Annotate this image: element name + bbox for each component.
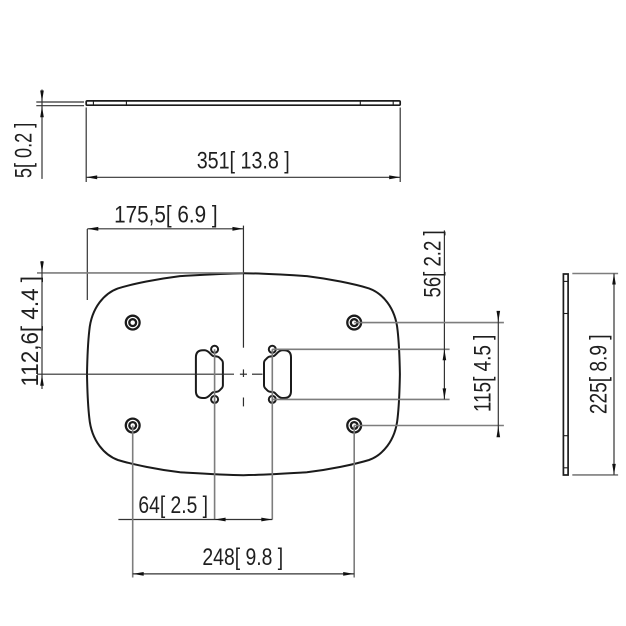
dim 225 extension line top (572, 273, 618, 275)
right slot cutout (264, 350, 291, 398)
dim 225 arrow bottom (612, 464, 616, 475)
gray extension line from bottom-right hole (horizontal) (354, 425, 504, 427)
dim 351 arrow left (86, 175, 97, 179)
side view divider line 3 (563, 435, 568, 437)
dim 175,5 arrow right (232, 227, 243, 231)
dim 351 arrow right (389, 175, 400, 179)
dim 175,5 extension line left (86, 229, 88, 300)
horizontal centerline (dashed) (37, 373, 263, 375)
dim 248 arrow right (343, 572, 354, 576)
svg-text:115[ 4.5 ]: 115[ 4.5 ] (469, 335, 496, 413)
svg-text:5[ 0.2 ]: 5[ 0.2 ] (11, 123, 38, 178)
svg-text:64[ 2.5 ]: 64[ 2.5 ] (138, 492, 208, 519)
dim 112,6 arrow bottom (40, 375, 44, 386)
svg-text:225[ 8.9 ]: 225[ 8.9 ] (585, 334, 612, 414)
dim 112,6 dimension line (41, 261, 43, 389)
dim 248 arrow left (133, 572, 144, 576)
dim 175,5 arrow left (87, 227, 98, 231)
dim 115 dimension line (497, 311, 499, 437)
hole bottom-left (126, 419, 140, 433)
dim 115 arrow bottom (497, 426, 501, 437)
dim 115 arrow top (497, 311, 501, 322)
gray extension line from right slot circles (vertical) (271, 349, 273, 519)
svg-text:248[ 9.8 ]: 248[ 9.8 ] (202, 544, 283, 571)
dim 5[0.2] extension line lower (36, 105, 84, 107)
main view plate outline (87, 273, 400, 475)
dim 5[0.2] arrow top (40, 91, 44, 102)
side view divider line 2 (563, 313, 568, 315)
dim 64 arrow left (215, 518, 226, 522)
dim 248 dimension line (133, 573, 355, 575)
dim 225 dimension line (613, 274, 615, 475)
gray extension line from right slot top circle (272, 348, 449, 350)
dim 64 arrow right (261, 518, 272, 522)
side view divider line 4 (563, 467, 568, 469)
dim 225 arrow top (612, 274, 616, 285)
svg-text:351[ 13.8 ]: 351[ 13.8 ] (197, 147, 290, 174)
plate top edge extension line (gray) (37, 272, 243, 274)
svg-text:56[ 2.2 ]: 56[ 2.2 ] (420, 230, 447, 297)
top view divider line 2 (125, 101, 127, 105)
dim 5[0.2] arrow bottom (40, 106, 44, 117)
dim 351 dimension line (86, 176, 400, 178)
svg-text:175,5[ 6.9 ]: 175,5[ 6.9 ] (114, 202, 218, 229)
top view divider line 1 (92, 101, 94, 105)
hole bottom-right (347, 419, 361, 433)
left slot top circle (211, 346, 218, 353)
svg-text:112,6[ 4.4 ]: 112,6[ 4.4 ] (17, 276, 44, 387)
gray extension line from top-right hole (354, 322, 504, 324)
dim 5[0.2] dimension line (41, 90, 43, 179)
dim 112,6 arrow top (40, 261, 44, 272)
gray extension line from right slot bottom circle (272, 398, 449, 400)
gray extension line from left slot circles (vertical) (214, 349, 216, 519)
hole top-right (347, 316, 361, 330)
side view plate outline (563, 274, 568, 475)
left slot bottom circle (211, 396, 218, 403)
vertical centerline (dashed) (242, 226, 244, 407)
top view divider line 3 (359, 101, 361, 105)
dim 351 extension line left (85, 108, 87, 183)
dim 351 extension line right (399, 108, 401, 183)
top view divider line 4 (392, 101, 394, 105)
right slot bottom circle (269, 396, 276, 403)
dim 64 dimension line (118, 519, 272, 521)
dim 175,5 dimension line (87, 228, 243, 230)
hole top-left (126, 316, 140, 330)
dim 56 arrow bottom (443, 388, 447, 399)
side view divider line 1 (563, 280, 568, 282)
dim 225 extension line bottom (572, 474, 618, 476)
gray extension line from bottom-left hole (vertical) (132, 426, 134, 578)
dim 56 arrow top (443, 349, 447, 360)
right slot top circle (269, 346, 276, 353)
gray extension line from bottom-right hole (vertical) (353, 426, 355, 578)
dim 5[0.2] extension line upper (36, 101, 84, 103)
left slot cutout (196, 350, 223, 398)
top view plate profile outline (86, 101, 400, 105)
dim 56 dimension line (443, 230, 445, 399)
